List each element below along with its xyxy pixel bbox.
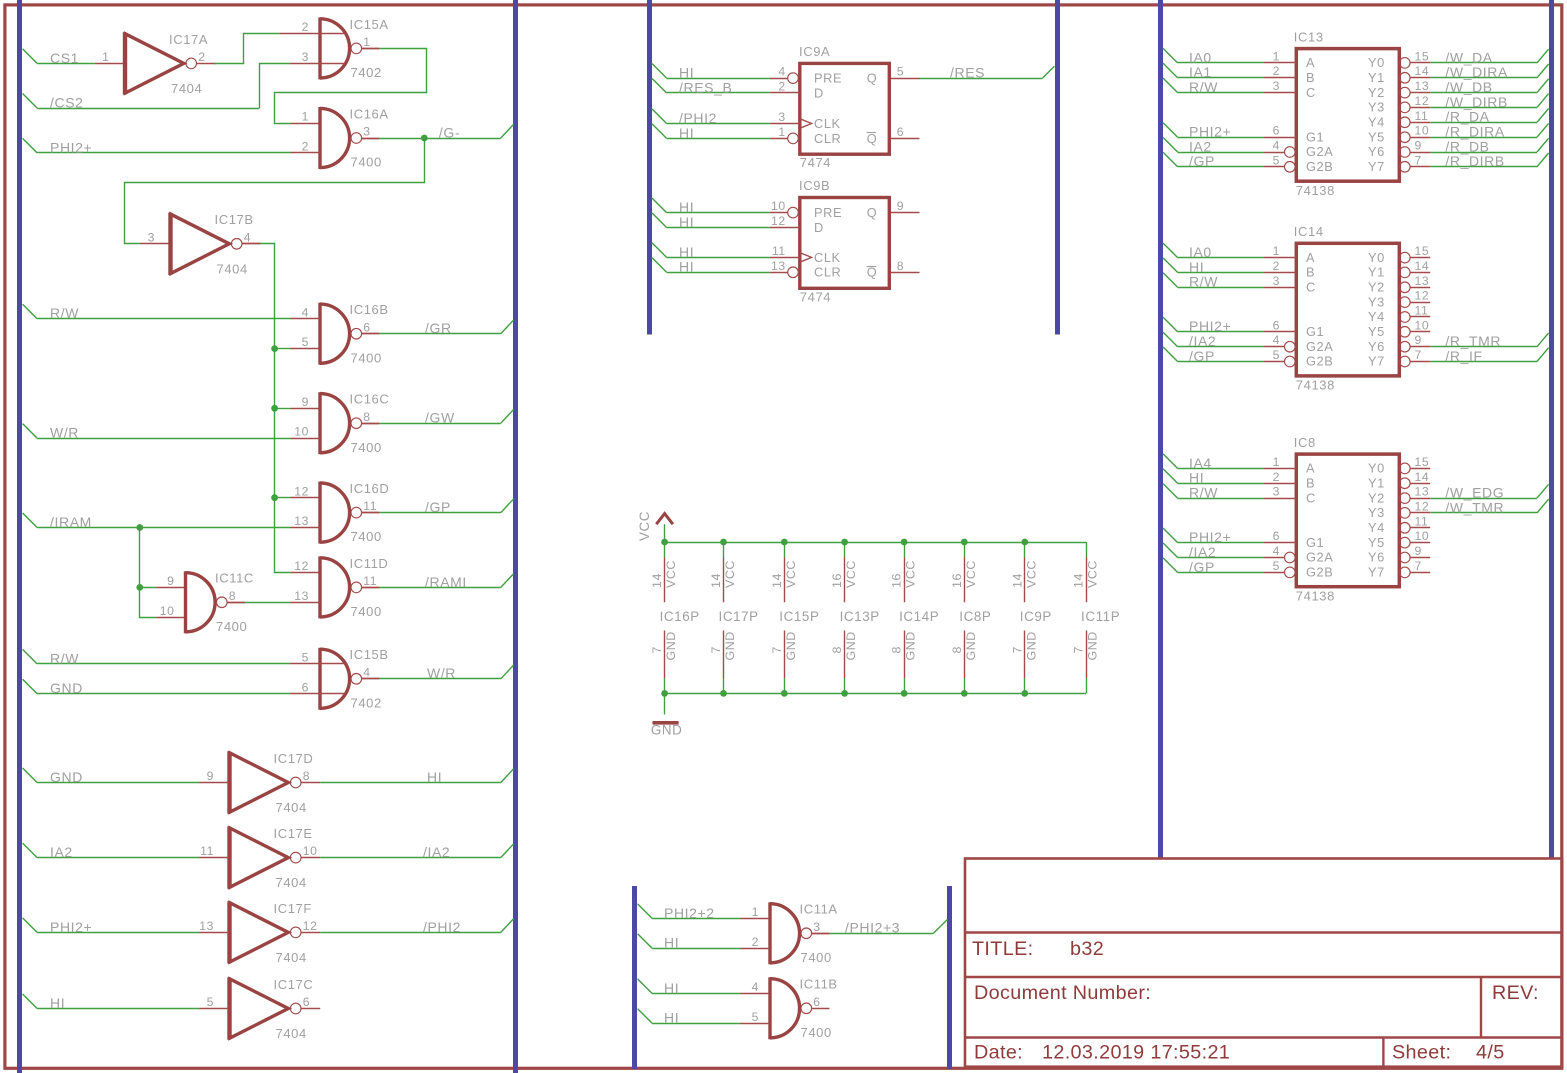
- svg-text:IC15B: IC15B: [350, 647, 389, 662]
- bus segment middle bottom (left): [632, 886, 637, 1069]
- svg-text:/PHI2: /PHI2: [679, 110, 717, 126]
- NAND gate IC11B: [752, 977, 838, 1040]
- svg-text:4: 4: [778, 65, 785, 79]
- svg-text:PRE: PRE: [814, 71, 842, 86]
- svg-text:Y5: Y5: [1368, 324, 1385, 339]
- svg-text:IC17E: IC17E: [274, 826, 313, 841]
- svg-text:/PHI2: /PHI2: [423, 919, 461, 935]
- svg-text:1: 1: [778, 125, 785, 139]
- svg-text:4: 4: [302, 305, 309, 319]
- svg-text:/W_DA: /W_DA: [1445, 49, 1492, 65]
- svg-text:R/W: R/W: [50, 650, 79, 666]
- svg-text:7400: 7400: [351, 350, 382, 365]
- svg-text:IC16B: IC16B: [350, 302, 389, 317]
- svg-text:5: 5: [302, 651, 309, 665]
- svg-text:1: 1: [1273, 455, 1280, 469]
- svg-text:7: 7: [1010, 646, 1024, 654]
- NAND gate IC16C: [294, 392, 389, 455]
- svg-text:14: 14: [1072, 573, 1086, 588]
- svg-text:HI: HI: [1189, 259, 1204, 275]
- svg-text:7404: 7404: [276, 875, 307, 890]
- svg-text:Y6: Y6: [1368, 144, 1385, 159]
- svg-text:A: A: [1306, 461, 1315, 476]
- svg-text:Y2: Y2: [1368, 280, 1385, 295]
- wire net HI (bus to IC11B pin 5): [638, 1009, 770, 1026]
- svg-text:G2B: G2B: [1306, 565, 1333, 580]
- wire net /IA2 (IC17E.10 to bus): [320, 844, 514, 860]
- wire net /PHI2 (IC17F.12 to bus): [320, 919, 514, 935]
- svg-text:13: 13: [771, 259, 786, 273]
- svg-text:/IA2: /IA2: [423, 844, 450, 860]
- svg-text:IC17B: IC17B: [215, 212, 254, 227]
- wire net HI (bus to IC9B CLR pin 13): [652, 258, 788, 275]
- svg-text:8: 8: [897, 259, 904, 273]
- wire net /PHI2+3 (IC11A.3 to bus): [812, 920, 948, 936]
- svg-text:15: 15: [1415, 455, 1430, 469]
- svg-text:6: 6: [303, 995, 310, 1009]
- svg-text:1: 1: [1273, 244, 1280, 258]
- svg-text:D: D: [814, 85, 824, 100]
- svg-text:12.03.2019 17:55:21: 12.03.2019 17:55:21: [1042, 1042, 1230, 1064]
- svg-text:12: 12: [294, 559, 309, 573]
- svg-text:Y4: Y4: [1368, 520, 1385, 535]
- svg-text:HI: HI: [1189, 470, 1204, 486]
- junction IC16B.5: [271, 345, 278, 352]
- wire net /CS2 (bus to IC15A pin 3): [23, 64, 345, 111]
- NAND gate IC16A: [302, 106, 389, 169]
- svg-text:7474: 7474: [800, 289, 831, 304]
- svg-text:GND: GND: [50, 769, 83, 785]
- svg-text:14: 14: [1415, 259, 1430, 273]
- svg-text:HI: HI: [679, 199, 694, 215]
- GND power symbol: [651, 693, 683, 737]
- svg-text:4/5: 4/5: [1476, 1042, 1505, 1064]
- svg-text:10: 10: [294, 425, 309, 439]
- svg-text:10: 10: [303, 844, 318, 858]
- svg-text:IC9A: IC9A: [799, 44, 830, 59]
- svg-text:/IA2: /IA2: [1189, 544, 1216, 560]
- svg-text:HI: HI: [679, 259, 694, 275]
- svg-text:10: 10: [1415, 318, 1430, 332]
- svg-text:2: 2: [198, 50, 205, 64]
- wire net HI (IC17D.8 to bus): [320, 769, 514, 785]
- svg-text:B: B: [1306, 265, 1315, 280]
- wire net /PHI2 (bus to IC9A CLK pin 3): [652, 109, 800, 126]
- svg-text:7404: 7404: [276, 950, 307, 965]
- svg-text:IC13: IC13: [1294, 29, 1324, 44]
- svg-text:/W_TMR: /W_TMR: [1445, 499, 1504, 515]
- svg-text:/RES: /RES: [950, 65, 985, 81]
- bus segment middle top (left): [647, 0, 652, 335]
- svg-text:6: 6: [897, 125, 904, 139]
- svg-text:74138: 74138: [1296, 183, 1335, 198]
- svg-text:3: 3: [778, 110, 785, 124]
- bus segment right column (left): [1158, 0, 1163, 859]
- wire net /GR (IC16B.6 to bus): [362, 320, 514, 336]
- svg-text:Y0: Y0: [1368, 55, 1385, 70]
- svg-text:GND: GND: [904, 631, 918, 660]
- svg-text:GND: GND: [1086, 631, 1100, 660]
- svg-text:W/R: W/R: [50, 425, 79, 441]
- wire net W/R (bus to IC16C pin 10): [23, 424, 320, 441]
- svg-text:IC17P: IC17P: [719, 609, 759, 624]
- wire net PHI2+ (bus to IC16A pin 2): [23, 138, 320, 155]
- svg-text:W/R: W/R: [427, 665, 456, 681]
- svg-text:16: 16: [830, 573, 844, 588]
- svg-text:2: 2: [302, 20, 309, 34]
- wire net /GW (IC16C.8 to bus): [362, 409, 514, 425]
- svg-text:TITLE:: TITLE:: [972, 938, 1033, 960]
- svg-text:7: 7: [770, 646, 784, 654]
- svg-text:8: 8: [303, 769, 310, 783]
- svg-text:Y1: Y1: [1368, 70, 1385, 85]
- svg-text:PHI2+: PHI2+: [1189, 318, 1231, 334]
- wire net HI (bus to IC11A pin 2): [638, 934, 770, 951]
- svg-text:16: 16: [950, 573, 964, 588]
- svg-text:7400: 7400: [351, 440, 382, 455]
- svg-text:7400: 7400: [351, 529, 382, 544]
- svg-text:R/W: R/W: [1189, 79, 1218, 95]
- wire net /RAMI (IC11D.11 to bus): [362, 574, 514, 590]
- svg-text:8: 8: [950, 646, 964, 654]
- svg-text:5: 5: [1273, 348, 1280, 362]
- svg-text:5: 5: [302, 335, 309, 349]
- wire net /GP (IC16D.11 to bus): [362, 499, 514, 515]
- svg-text:R/W: R/W: [1189, 274, 1218, 290]
- svg-text:/IA2: /IA2: [1189, 333, 1216, 349]
- svg-text:VCC: VCC: [723, 560, 737, 588]
- svg-text:IC13P: IC13P: [840, 609, 880, 624]
- svg-text:7404: 7404: [276, 800, 307, 815]
- svg-text:7: 7: [1415, 348, 1422, 362]
- svg-text:2: 2: [778, 80, 785, 94]
- svg-text:9: 9: [1415, 139, 1422, 153]
- svg-text:A: A: [1306, 250, 1315, 265]
- svg-text:7400: 7400: [801, 1025, 832, 1040]
- wire net R/W (bus to IC16B pin 4): [23, 304, 320, 321]
- svg-text:11: 11: [200, 844, 214, 858]
- svg-text:3: 3: [1273, 274, 1280, 288]
- svg-text:/W_DIRA: /W_DIRA: [1445, 64, 1508, 80]
- bus segment middle bottom (right): [947, 886, 952, 1069]
- svg-text:1: 1: [102, 50, 109, 64]
- svg-text:12: 12: [1415, 289, 1430, 303]
- svg-text:Y7: Y7: [1368, 159, 1385, 174]
- svg-text:13: 13: [1415, 274, 1430, 288]
- svg-text:IA2: IA2: [50, 844, 73, 860]
- wire net PHI2+2 (bus to IC11A pin 1): [638, 904, 770, 921]
- wire net CS1 (bus to IC17A pin 1): [23, 49, 123, 66]
- svg-text:VCC: VCC: [784, 560, 798, 588]
- svg-text:Y0: Y0: [1368, 461, 1385, 476]
- svg-text:/GW: /GW: [425, 410, 455, 426]
- wire net W/R (IC15B.4 to bus): [362, 665, 514, 681]
- wire net IC17B.4 vertical distribution (to IC16B.5, IC16C.9, IC16D.12, IC11D.12): [242, 244, 320, 573]
- svg-text:CS1: CS1: [50, 50, 79, 66]
- svg-text:IC17F: IC17F: [274, 901, 312, 916]
- svg-text:/RES_B: /RES_B: [679, 79, 732, 95]
- svg-text:Y2: Y2: [1368, 490, 1385, 505]
- svg-text:11: 11: [1415, 109, 1429, 123]
- svg-text:12: 12: [1415, 94, 1430, 108]
- svg-text:7400: 7400: [801, 950, 832, 965]
- svg-text:PHI2+2: PHI2+2: [664, 905, 715, 921]
- svg-text:/GR: /GR: [425, 320, 452, 336]
- svg-text:HI: HI: [427, 769, 442, 785]
- svg-text:7: 7: [650, 646, 664, 654]
- svg-text:IC11C: IC11C: [215, 571, 254, 586]
- svg-text:5: 5: [1273, 559, 1280, 573]
- svg-text:IC8P: IC8P: [959, 609, 991, 624]
- svg-text:8: 8: [363, 410, 370, 424]
- svg-text:IC16D: IC16D: [350, 481, 390, 496]
- svg-text:9: 9: [1415, 544, 1422, 558]
- svg-text:15: 15: [1415, 244, 1430, 258]
- svg-text:7474: 7474: [800, 155, 831, 170]
- svg-text:7402: 7402: [351, 695, 382, 710]
- svg-text:IC9P: IC9P: [1020, 609, 1052, 624]
- svg-text:3: 3: [363, 125, 370, 139]
- svg-text:5: 5: [1273, 153, 1280, 167]
- svg-text:VCC: VCC: [1086, 560, 1100, 588]
- wire net GND (bus to IC15B pin 6): [23, 679, 345, 696]
- svg-text:3: 3: [148, 230, 155, 244]
- svg-text:10: 10: [1415, 529, 1430, 543]
- svg-text:15: 15: [1415, 49, 1430, 63]
- svg-text:b32: b32: [1070, 938, 1104, 960]
- svg-text:IC11P: IC11P: [1081, 609, 1120, 624]
- svg-text:HI: HI: [664, 980, 679, 996]
- svg-text:CLR: CLR: [814, 265, 841, 280]
- svg-text:13: 13: [1415, 485, 1430, 499]
- svg-text:G2A: G2A: [1306, 339, 1333, 354]
- svg-text:Date:: Date:: [974, 1042, 1023, 1064]
- svg-text:IC17C: IC17C: [274, 977, 314, 992]
- wire net GND bottom rail: [665, 678, 1087, 694]
- svg-text:16: 16: [890, 573, 904, 588]
- svg-text:IA0: IA0: [1189, 49, 1212, 65]
- svg-text:8: 8: [830, 646, 844, 654]
- svg-text:10: 10: [1415, 124, 1430, 138]
- svg-text:C: C: [1306, 490, 1316, 505]
- bus segment left column (left): [17, 0, 22, 1073]
- inverter IC17B: [148, 212, 262, 276]
- svg-text:11: 11: [1415, 304, 1429, 318]
- wire net /RES_B (bus to IC9A D pin 2): [652, 79, 800, 96]
- 3-to-8 decoder IC8 (74138) with input nets IA4 HI R/W PHI2+ /IA2 /GP and output nets /W_EDG /W_TMR: [1163, 435, 1549, 604]
- svg-text:8: 8: [229, 589, 236, 603]
- svg-text:3: 3: [1273, 485, 1280, 499]
- wire net /IRAM (bus to IC16D pin 13 and IC11C): [23, 513, 320, 618]
- svg-text:10: 10: [771, 199, 786, 213]
- svg-text:7404: 7404: [217, 261, 248, 276]
- svg-text:/GP: /GP: [425, 499, 451, 515]
- svg-text:VCC: VCC: [637, 511, 652, 541]
- svg-text:Sheet:: Sheet:: [1392, 1042, 1451, 1064]
- svg-text:5: 5: [897, 65, 904, 79]
- svg-text:12: 12: [303, 919, 318, 933]
- svg-text:IA1: IA1: [1189, 64, 1212, 80]
- svg-text:13: 13: [294, 589, 309, 603]
- svg-text:1: 1: [752, 905, 759, 919]
- svg-text:7: 7: [1072, 646, 1086, 654]
- svg-text:2: 2: [752, 935, 759, 949]
- svg-text:12: 12: [771, 214, 786, 228]
- svg-text:2: 2: [1273, 64, 1280, 78]
- svg-text:C: C: [1306, 280, 1316, 295]
- svg-text:/R_DIRA: /R_DIRA: [1445, 124, 1504, 140]
- svg-text:G2B: G2B: [1306, 159, 1333, 174]
- svg-text:4: 4: [244, 230, 251, 244]
- svg-text:1: 1: [302, 110, 309, 124]
- wire net R/W (bus to IC15B pin 5): [23, 649, 345, 666]
- svg-text:5: 5: [207, 995, 214, 1009]
- inverter IC17C: [207, 977, 321, 1041]
- svg-text:7: 7: [709, 646, 723, 654]
- svg-text:HI: HI: [679, 214, 694, 230]
- svg-text:8: 8: [890, 646, 904, 654]
- wire net HI (bus to IC17C pin 5): [23, 994, 228, 1011]
- wire net /RES (IC9A Q pin 5 to bus): [920, 65, 1055, 81]
- svg-text:/IRAM: /IRAM: [50, 514, 92, 530]
- svg-text:G2A: G2A: [1306, 144, 1333, 159]
- junction on /G- net: [421, 135, 428, 142]
- svg-text:74138: 74138: [1296, 589, 1335, 604]
- svg-text:Y4: Y4: [1368, 309, 1385, 324]
- svg-text:IC8: IC8: [1294, 435, 1316, 450]
- svg-text:11: 11: [1415, 514, 1429, 528]
- svg-text:IA4: IA4: [1189, 455, 1212, 471]
- wire net GND (bus to IC17D pin 9): [23, 768, 228, 785]
- svg-text:GND: GND: [723, 631, 737, 660]
- svg-text:4: 4: [1273, 333, 1280, 347]
- svg-text:/GP: /GP: [1189, 153, 1215, 169]
- svg-text:/GP: /GP: [1189, 348, 1215, 364]
- NOR gate IC15A: [302, 17, 389, 80]
- svg-text:4: 4: [363, 665, 370, 679]
- svg-text:9: 9: [1415, 333, 1422, 347]
- svg-text:Y5: Y5: [1368, 129, 1385, 144]
- svg-text:Y0: Y0: [1368, 250, 1385, 265]
- wire net /G- (IC16A.3 to bus, with branch to IC17B): [125, 124, 514, 243]
- svg-text:Y4: Y4: [1368, 115, 1385, 130]
- wire net HI (bus to IC9A PRE pin 4): [652, 64, 788, 81]
- svg-text:Y1: Y1: [1368, 265, 1385, 280]
- svg-text:6: 6: [1273, 318, 1280, 332]
- svg-text:7400: 7400: [351, 604, 382, 619]
- svg-text:9: 9: [207, 769, 214, 783]
- svg-text:7402: 7402: [351, 65, 382, 80]
- svg-text:4: 4: [1273, 544, 1280, 558]
- svg-text:IC15A: IC15A: [350, 17, 389, 32]
- svg-text:3: 3: [1273, 79, 1280, 93]
- svg-text:/RAMI: /RAMI: [425, 574, 467, 590]
- svg-text:/G-: /G-: [439, 124, 460, 140]
- NAND gate IC11D: [294, 556, 388, 619]
- svg-text:IA0: IA0: [1189, 244, 1212, 260]
- wire net HI (bus to IC9B D pin 12): [652, 213, 800, 230]
- svg-text:9: 9: [302, 395, 309, 409]
- svg-text:IC17A: IC17A: [169, 32, 208, 47]
- svg-text:IC9B: IC9B: [799, 178, 830, 193]
- svg-text:Y7: Y7: [1368, 354, 1385, 369]
- svg-text:Q: Q: [867, 71, 878, 86]
- junction /IRAM at IC11C pin 9: [136, 584, 143, 591]
- svg-text:/W_DIRB: /W_DIRB: [1445, 94, 1508, 110]
- svg-text:Y2: Y2: [1368, 85, 1385, 100]
- svg-text:Y3: Y3: [1368, 100, 1385, 115]
- NOR gate IC15B: [302, 647, 389, 710]
- title block: [965, 859, 1562, 1067]
- svg-text:HI: HI: [679, 65, 694, 81]
- wire net IC11C.8 to IC11D.13: [227, 602, 320, 604]
- svg-text:R/W: R/W: [50, 305, 79, 321]
- wire net HI (bus to IC9A CLR pin 1): [652, 124, 788, 141]
- NAND gate IC16B: [302, 302, 389, 365]
- power pin stub IC11P: [1072, 558, 1121, 679]
- D flip-flop IC9B: [771, 178, 919, 304]
- svg-text:GND: GND: [1024, 631, 1038, 660]
- svg-text:7400: 7400: [216, 619, 247, 634]
- svg-text:Q: Q: [867, 205, 878, 220]
- svg-text:13: 13: [199, 919, 214, 933]
- svg-text:Y6: Y6: [1368, 339, 1385, 354]
- svg-text:GND: GND: [50, 680, 83, 696]
- svg-text:6: 6: [302, 680, 309, 694]
- svg-text:7404: 7404: [171, 81, 202, 96]
- inverter IC17F: [199, 901, 320, 965]
- svg-text:7404: 7404: [276, 1026, 307, 1041]
- svg-text:12: 12: [294, 484, 309, 498]
- bus segment middle top (right): [1055, 0, 1060, 335]
- svg-text:14: 14: [709, 573, 723, 588]
- svg-text:13: 13: [1415, 79, 1430, 93]
- svg-text:74138: 74138: [1296, 378, 1335, 393]
- svg-text:Y6: Y6: [1368, 550, 1385, 565]
- svg-text:13: 13: [294, 514, 309, 528]
- svg-text:IC11D: IC11D: [350, 556, 389, 571]
- svg-text:REV:: REV:: [1492, 982, 1539, 1004]
- svg-text:6: 6: [363, 320, 370, 334]
- bus segment right column (right): [1549, 0, 1554, 859]
- svg-text:G2A: G2A: [1306, 550, 1333, 565]
- svg-text:/CS2: /CS2: [50, 94, 84, 110]
- svg-text:G1: G1: [1306, 324, 1324, 339]
- svg-text:12: 12: [1415, 499, 1430, 513]
- svg-text:D: D: [814, 220, 824, 235]
- svg-text:10: 10: [160, 604, 175, 618]
- svg-text:IC14P: IC14P: [899, 609, 939, 624]
- 3-to-8 decoder IC13 (74138) with input nets IA0 IA1 R/W PHI2+ IA2 /GP and output nets /W_DA /W_DIRA /W_DB /W_DIRB /R_DA /R_DIRA /R_DB /R_DIRB: [1163, 29, 1549, 198]
- bus segment left column (right): [513, 0, 518, 1073]
- svg-text:7: 7: [1415, 559, 1422, 573]
- svg-text:/W_EDG: /W_EDG: [1445, 485, 1504, 501]
- svg-text:GND: GND: [664, 631, 678, 660]
- NAND gate IC11C: [160, 571, 254, 634]
- svg-text:1: 1: [1273, 49, 1280, 63]
- svg-text:HI: HI: [679, 244, 694, 260]
- svg-text:3: 3: [302, 50, 309, 64]
- svg-text:/R_DA: /R_DA: [1445, 109, 1489, 125]
- svg-text:VCC: VCC: [1024, 560, 1038, 588]
- svg-text:B: B: [1306, 70, 1315, 85]
- svg-text:2: 2: [302, 140, 309, 154]
- svg-text:PHI2+: PHI2+: [1189, 529, 1231, 545]
- wire net IA2 (bus to IC17E pin 11): [23, 843, 228, 860]
- svg-text:2: 2: [1273, 259, 1280, 273]
- svg-text:VCC: VCC: [664, 560, 678, 588]
- VCC power symbol: [637, 511, 673, 542]
